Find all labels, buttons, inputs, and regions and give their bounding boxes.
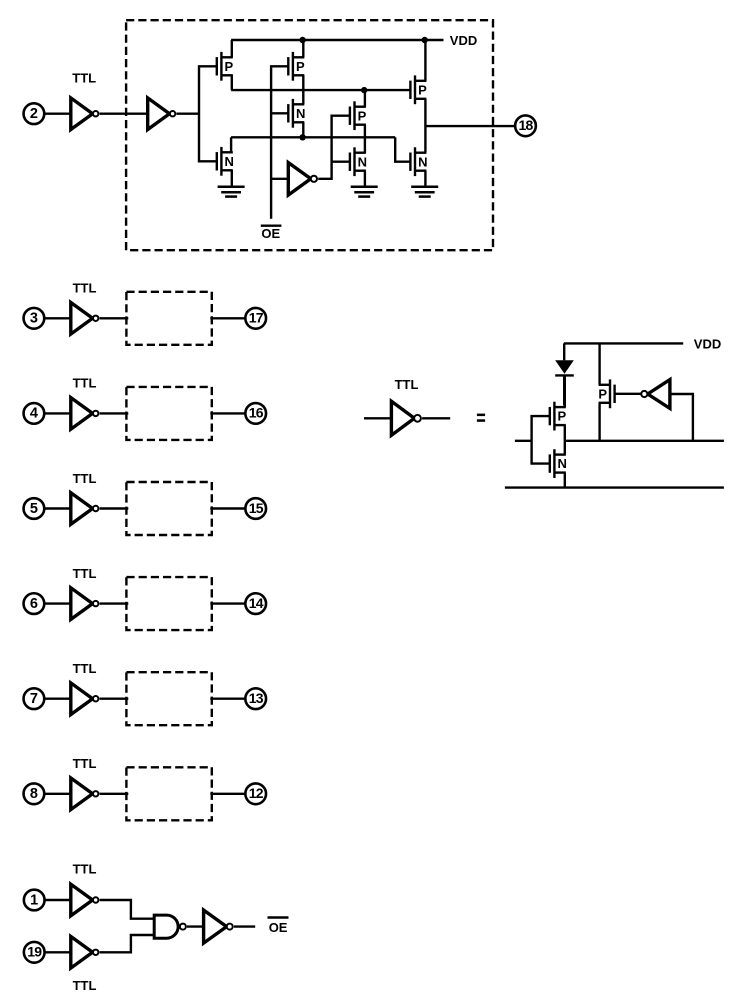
wire N2 source to ground — [364, 171, 366, 187]
pin 16 output — [245, 403, 266, 424]
wire A3 output to N2 gate — [332, 160, 350, 162]
wire gate bus P5-N5 — [532, 416, 550, 464]
svg-text:N: N — [558, 456, 567, 471]
svg-text:TTL: TTL — [73, 566, 97, 581]
svg-text:TTL: TTL — [72, 71, 96, 86]
pin 17 output — [245, 308, 266, 329]
svg-text:P: P — [225, 59, 234, 74]
svg-text:TTL: TTL — [73, 661, 97, 676]
junction node H — [299, 134, 305, 140]
wire dashed box to pin 14 — [210, 602, 245, 604]
wire feedback inverter input from output node — [670, 394, 693, 441]
pin 14 output — [245, 593, 266, 614]
wire dashed box to pin 13 — [210, 698, 245, 700]
wire pin4 to inverter — [44, 412, 70, 414]
ground (N3) — [218, 187, 245, 197]
wire input stub to gate bus — [515, 440, 532, 442]
transistor N5 (input stage NMOS) — [550, 449, 567, 478]
dashed box: output stage (channel 8-12) — [126, 767, 211, 820]
wire pin1 inverter to NAND input A — [100, 900, 155, 919]
svg-text:VDD: VDD — [450, 33, 477, 48]
TTL inverter (pin 6) — [71, 588, 99, 620]
wire dashed box to pin 15 — [210, 507, 245, 509]
wire P3 drain to VDD — [424, 40, 426, 81]
wire pin19 inverter to NAND input B — [100, 935, 155, 952]
wire VDD rail — [231, 39, 443, 41]
wire P4 source to N2 drain — [364, 125, 366, 153]
pin 6 input — [24, 593, 45, 614]
wire pin7 to inverter — [44, 698, 70, 700]
wire inverter to dashed box (row 7) — [100, 698, 129, 700]
dashed box: output stage (channel 3-17) — [126, 292, 211, 345]
wire out of TTL symbol — [422, 417, 450, 419]
svg-text:VDD: VDD — [694, 336, 721, 351]
pin 2 input — [24, 103, 45, 124]
svg-text:TTL: TTL — [73, 281, 97, 296]
ground (N4) — [411, 187, 438, 197]
wire inverter to dashed box (row 8) — [100, 793, 129, 795]
transistor N2 (transfer NMOS) — [350, 147, 367, 176]
wire node G horizontal to P3 gate — [231, 89, 410, 91]
junction VDD-P2 — [299, 37, 305, 43]
wire node H horizontal — [231, 136, 395, 138]
TTL inverter (pin 7) — [71, 683, 99, 715]
wire OE net to N1 gate — [271, 112, 288, 114]
wire NAND to inverter G2 — [187, 925, 204, 927]
svg-text:5: 5 — [30, 501, 38, 517]
svg-text:7: 7 — [30, 691, 38, 707]
wire N5 drain to output node — [564, 441, 566, 455]
wire P1 drain to VDD — [231, 40, 233, 57]
svg-text:P: P — [598, 386, 607, 401]
equals sign — [477, 414, 485, 422]
label OE (inside box) — [261, 226, 282, 242]
svg-text:TTL: TTL — [395, 377, 419, 392]
wire node IN vertical to gates of P1 and N3 — [199, 66, 217, 161]
wire pin5 to inverter — [44, 507, 70, 509]
svg-text:TTL: TTL — [73, 471, 97, 486]
pin 13 output — [245, 688, 266, 709]
wire inverter to dashed box (row 4) — [100, 412, 129, 414]
wire A3 output up to P4 gate — [318, 116, 350, 179]
wire VDD rail (equivalent circuit) — [564, 342, 683, 344]
wire pin3 to inverter — [44, 317, 70, 319]
svg-text:1: 1 — [30, 892, 38, 908]
wire output node horizontal — [564, 440, 724, 442]
wire N5 source to bottom rail — [564, 473, 566, 488]
transistor P4 (transfer PMOS) — [350, 101, 367, 130]
wire P3 source to N4 drain (output node) — [424, 99, 426, 153]
svg-text:18: 18 — [519, 117, 534, 133]
wire dashed box to pin 16 — [210, 412, 245, 414]
wire G2 to OE net — [234, 925, 255, 927]
svg-text:8: 8 — [30, 786, 38, 802]
pin 12 output — [245, 783, 266, 804]
wire inverter to dashed box (row 5) — [100, 507, 129, 509]
inverter A4 (feedback, left-facing) — [641, 380, 670, 409]
svg-text:N: N — [225, 154, 234, 169]
wire P4 drain to node G — [364, 90, 366, 107]
wire A2 output to node IN — [177, 112, 200, 114]
dashed box: output stage detail (channel 2-18) — [126, 20, 493, 250]
wire P1 source down to node G — [231, 75, 233, 90]
wire P6 source to output node — [598, 403, 600, 441]
wire pin2 to inverter A1 — [44, 112, 70, 114]
inverter A3 (inside box) — [288, 163, 317, 195]
junction VDD-P3 — [422, 37, 428, 43]
wire N1 source to node H — [302, 122, 304, 137]
wire output node to pin 18 — [425, 125, 515, 127]
TTL inverter A1 (pin 2) — [71, 98, 99, 130]
wire node H to N4 gate — [395, 137, 410, 161]
svg-text:TTL: TTL — [73, 978, 97, 993]
svg-text:P: P — [358, 108, 367, 123]
wire P5 drain up — [564, 375, 566, 407]
TTL inverter (pin 8) — [71, 778, 99, 810]
pin 5 input — [24, 498, 45, 519]
pin 8 input — [24, 783, 45, 804]
NAND gate G1 — [154, 915, 186, 938]
transistor P5 (input stage PMOS) — [550, 402, 567, 431]
TTL inverter (pin 19) — [71, 937, 99, 969]
wire dashed box to pin 12 — [210, 793, 245, 795]
dashed box: output stage (channel 7-13) — [126, 672, 211, 725]
svg-text:6: 6 — [30, 596, 38, 612]
transistor P6 (feedback PMOS) — [598, 379, 614, 408]
wire pin1 to inverter — [45, 899, 71, 901]
wire P2 source to N1 drain — [302, 75, 304, 104]
svg-text:14: 14 — [249, 595, 264, 611]
pin 1 OE input — [24, 890, 45, 911]
pin 4 input — [24, 403, 45, 424]
svg-text:P: P — [558, 409, 567, 424]
transistor P1 (input PMOS) — [217, 52, 234, 81]
TTL inverter (pin 5) — [71, 493, 99, 525]
wire A1 to A2 — [100, 112, 148, 114]
wire OE net to inverter A3 input — [271, 178, 288, 180]
transistor N3 (input NMOS) — [217, 147, 234, 176]
svg-text:17: 17 — [249, 310, 264, 326]
svg-text:2: 2 — [30, 106, 38, 122]
wire pin6 to inverter — [44, 602, 70, 604]
svg-text:12: 12 — [249, 785, 264, 801]
inverter G2 — [204, 910, 233, 943]
wire P6 drain to VDD rail — [598, 343, 600, 384]
pin 7 input — [24, 688, 45, 709]
svg-text:3: 3 — [30, 311, 38, 327]
wire diode cathode to P5 drain — [563, 375, 565, 405]
wire P6 gate to feedback inverter — [615, 393, 642, 395]
TTL inverter (pin 3) — [71, 303, 99, 335]
wire inverter to dashed box (row 3) — [100, 317, 129, 319]
svg-text:P: P — [418, 82, 427, 97]
svg-text:N: N — [418, 154, 427, 169]
label OE (enable net) — [268, 918, 289, 935]
svg-text:15: 15 — [249, 500, 264, 516]
wire dashed box to pin 17 — [210, 317, 245, 319]
pin 15 output — [245, 498, 266, 519]
svg-text:16: 16 — [249, 405, 264, 421]
TTL inverter (pin 4) — [71, 398, 99, 430]
svg-text:P: P — [296, 59, 305, 74]
pin 3 input — [24, 308, 45, 329]
svg-text:OE: OE — [261, 226, 280, 241]
dashed box: output stage (channel 5-15) — [126, 482, 211, 535]
transistor N4 (output NMOS) — [410, 147, 427, 176]
wire inverter to dashed box (row 6) — [100, 602, 129, 604]
wire VDD to diode anode — [563, 343, 565, 360]
ground (N2) — [351, 187, 378, 197]
pin 19 OE input — [24, 942, 45, 963]
wire pin19 to inverter — [45, 951, 71, 953]
junction node G-P4 — [361, 87, 367, 93]
svg-text:N: N — [296, 106, 305, 121]
wire bottom rail (equivalent circuit) — [505, 486, 724, 488]
dashed box: output stage (channel 4-16) — [126, 387, 211, 440]
diode D1 (input protection) — [555, 360, 574, 375]
pin 18 output — [515, 115, 536, 136]
transistor P3 (output PMOS) — [410, 75, 427, 104]
svg-text:TTL: TTL — [73, 376, 97, 391]
svg-text:OE: OE — [269, 920, 288, 935]
svg-text:19: 19 — [27, 944, 42, 960]
svg-text:TTL: TTL — [73, 862, 97, 877]
inverter A2 — [148, 98, 176, 130]
wire node H down to N3 drain — [230, 137, 232, 152]
wire OE net vertical to P2 gate — [271, 66, 288, 218]
wire into TTL symbol — [364, 417, 391, 419]
wire P2 drain to VDD — [302, 40, 304, 57]
transistor N1 (OE NMOS) — [288, 99, 305, 128]
svg-text:TTL: TTL — [73, 756, 97, 771]
TTL inverter (pin 1) — [71, 884, 99, 916]
svg-text:N: N — [358, 154, 367, 169]
dashed box: output stage (channel 6-14) — [126, 577, 211, 630]
wire N4 source to ground — [424, 171, 426, 187]
wire P5 source to output node — [564, 425, 566, 441]
svg-text:4: 4 — [30, 406, 38, 422]
wire pin8 to inverter — [44, 793, 70, 795]
transistor P2 (OE PMOS) — [288, 52, 305, 81]
TTL inverter symbol — [391, 401, 421, 435]
wire N3 source to ground — [231, 170, 233, 187]
svg-text:13: 13 — [249, 690, 264, 706]
